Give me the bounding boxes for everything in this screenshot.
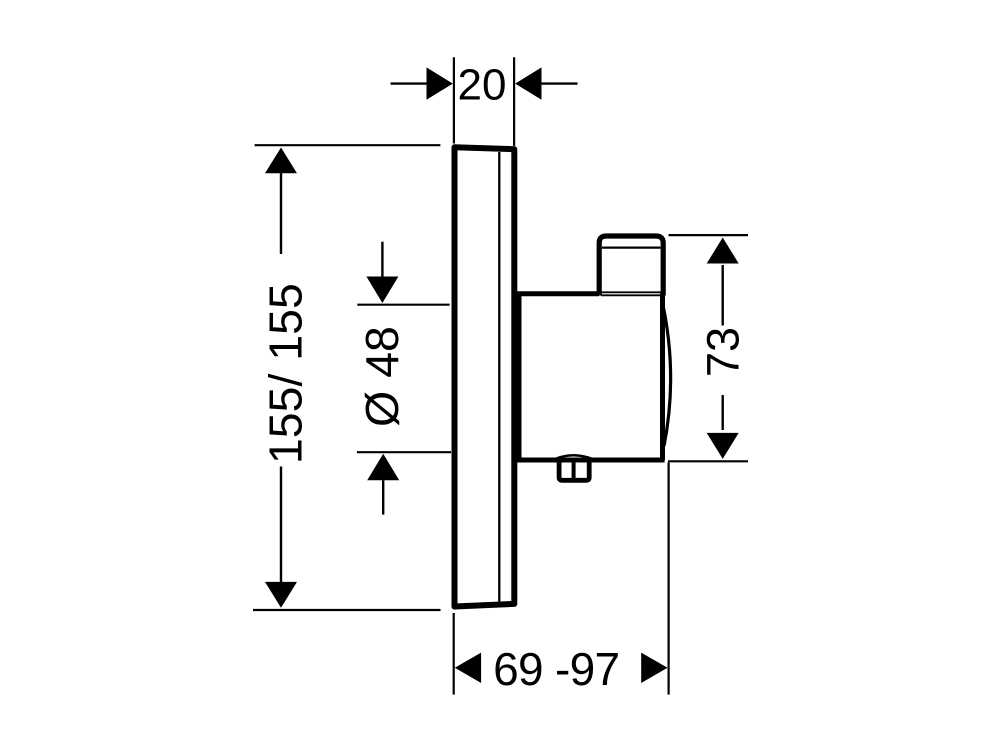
dim 155/155: bottom extension line [253, 609, 441, 611]
valve body outline [514, 294, 665, 461]
dim 20: left arrow (points right) [427, 67, 453, 99]
dim 69-97: left extension line [453, 613, 455, 695]
dim 20: left extension line [453, 57, 455, 143]
dim D48: top stem [381, 242, 383, 277]
svg-text:20: 20 [458, 61, 507, 110]
plate inner edge line [498, 152, 500, 602]
dim 155/155: bottom arrow (points down) [265, 582, 297, 608]
dim 69-97: right extension line [667, 463, 669, 695]
adapter divider line [572, 458, 576, 480]
dim 69-97: right arrow (points right) [641, 653, 667, 683]
dim 20: right extension line [513, 57, 515, 146]
dim 20: right lead line [542, 82, 578, 84]
shut-off handle on top of body [599, 236, 663, 296]
dim 155/155: top extension line [255, 144, 441, 146]
dim D48: top arrow (points down) [366, 277, 398, 304]
dim 155/155: dimension line lower segment [280, 467, 282, 583]
svg-text:Ø 48: Ø 48 [356, 326, 408, 427]
valve body top edge behind handle (thin double line) [601, 291, 661, 293]
dim 20: right arrow (points left) [515, 67, 541, 99]
dim 155/155: top arrow (points up) [265, 148, 297, 174]
bottom adapter bulge arc [557, 455, 592, 458]
dim D48: bottom extension line [357, 451, 451, 453]
svg-text:69 -97: 69 -97 [493, 643, 619, 695]
dim 155/155: dimension line upper segment [280, 173, 282, 255]
bottom adapter box [559, 459, 589, 480]
escutcheon plate (side view outline) [455, 147, 515, 606]
dim 73: bottom arrow (points down) [707, 433, 739, 459]
dim 69-97: left arrow (points left) [455, 653, 481, 683]
dim D48: bottom stem [382, 480, 384, 514]
dim 73: bottom extension line [668, 460, 748, 462]
valve body right face arc [663, 303, 671, 446]
handle inner line [602, 247, 661, 249]
svg-text:73: 73 [698, 327, 749, 377]
dim D48: top extension line [357, 304, 449, 306]
dim 73: dimension line upper segment [722, 265, 724, 326]
dim 20: left lead line [391, 82, 429, 84]
svg-text:155/ 155: 155/ 155 [260, 283, 312, 464]
dim 73: dimension line lower segment [722, 395, 724, 430]
dim 73: top extension line [669, 234, 749, 236]
dim 73: top arrow (points up) [707, 238, 739, 264]
dim D48: bottom arrow (points up) [367, 454, 399, 481]
